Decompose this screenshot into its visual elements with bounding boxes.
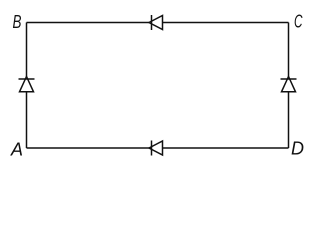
svg-text:B: B <box>13 12 22 32</box>
diode D3 bottom (pointing left) <box>149 141 163 156</box>
wire bottom right segment (D to bottom diode) <box>163 147 289 149</box>
wire top right segment (top diode to C) <box>163 22 289 24</box>
wire right lower segment (right diode to D) <box>288 92 290 148</box>
diode D2 right (pointing up) <box>281 77 297 92</box>
wire left lower segment (A to left diode) <box>26 92 28 148</box>
svg-text:D: D <box>291 139 304 159</box>
diode D1 top (pointing left) <box>149 15 163 30</box>
wire bottom left segment (bottom diode to A) <box>27 147 152 149</box>
wire left upper segment (left diode to B) <box>26 23 28 80</box>
wire top left segment (B to top diode) <box>27 22 152 24</box>
svg-text:A: A <box>10 140 23 160</box>
svg-text:C: C <box>294 12 303 32</box>
wire right upper segment (C to right diode) <box>288 23 290 80</box>
diode D4 left (pointing up) <box>19 77 35 92</box>
